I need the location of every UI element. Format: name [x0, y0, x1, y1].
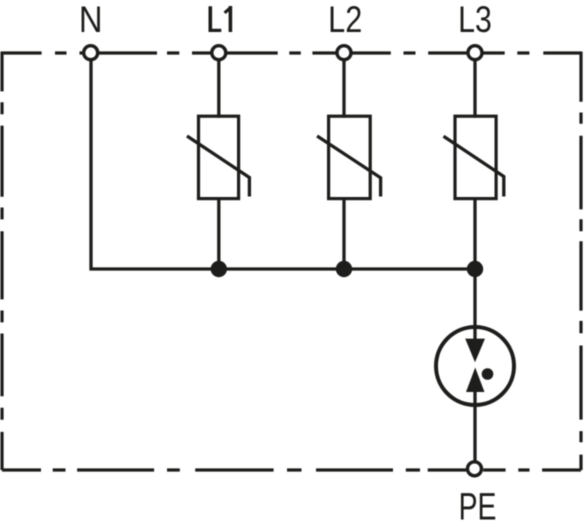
wire L2 top [342, 59, 345, 117]
wire L1 top [217, 59, 220, 117]
junction node L3/bus [467, 261, 483, 277]
wire L2 bottom [342, 197, 345, 269]
spark gap gas-filled indicator dot [482, 368, 494, 380]
wire L1 bottom [217, 197, 220, 269]
svg-text:L2: L2 [328, 0, 362, 41]
wire spark gap top [473, 269, 476, 340]
wire L3 bottom [473, 197, 476, 269]
svg-text:PE: PE [459, 487, 497, 527]
varistor F2 (L2) body [329, 116, 371, 198]
terminal L2 [337, 46, 351, 60]
varistor F3 diagonal strike [444, 136, 504, 196]
svg-text:L3: L3 [458, 0, 492, 41]
enclosure border left (dash-dot) [0, 52, 3, 471]
junction node L2/bus [336, 261, 352, 277]
spark gap lower electrode (triangle) [466, 368, 485, 393]
varistor F1 (L1) body [199, 116, 239, 198]
label L1 (drawn: DIN-style glyphs) [209, 6, 233, 32]
varistor F2 diagonal strike [317, 136, 381, 197]
junction node L1/bus [211, 261, 227, 277]
varistor F3 (L3) body [455, 116, 496, 198]
enclosure border right (dash-dot) [579, 52, 582, 471]
enclosure border bottom (dash-dot) [2, 468, 581, 471]
terminal L3 [468, 46, 482, 60]
wire spark gap bottom (to PE terminal) [473, 391, 476, 462]
enclosure border top (dash-dot) [2, 51, 581, 54]
terminal N [84, 46, 98, 60]
wire N vertical + PE bus horizontal [91, 59, 475, 269]
terminal PE [468, 462, 482, 476]
wire L3 top [473, 59, 476, 117]
svg-text:N: N [79, 0, 103, 40]
spark gap F4 circle [436, 327, 514, 405]
varistor F1 diagonal strike [187, 136, 249, 197]
terminal L1 [212, 46, 226, 60]
spark gap upper electrode (triangle) [465, 339, 485, 363]
